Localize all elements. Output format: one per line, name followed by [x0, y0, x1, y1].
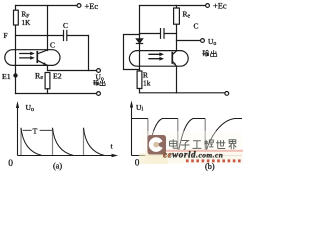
wire: circuit (b) bottom rail: [140, 92, 225, 94]
graph (a) decay curves: [21, 128, 105, 156]
label 输出 (b): [202, 50, 216, 56]
wire: node F horizontal to capacitor: [16, 35, 64, 37]
watermark title 电子工程世界: [170, 139, 237, 149]
resistor R (b): [137, 71, 142, 89]
wire: diode branch vertical (b): [139, 6, 141, 39]
capacitor C (b): [140, 29, 177, 39]
svg-text:F: F: [4, 31, 8, 40]
svg-text:+Ec: +Ec: [85, 2, 99, 11]
graph (b) waveform drops: [148, 119, 205, 152]
svg-text:(a): (a): [53, 162, 62, 171]
svg-text:0: 0: [8, 159, 13, 169]
terminal output common (b): [225, 92, 229, 96]
resistor Re (b): [174, 8, 180, 24]
resistor Re (a): [45, 73, 50, 89]
svg-text:E1: E1: [2, 72, 11, 81]
graph (b) Y axis arrow: [130, 101, 133, 108]
svg-text:C: C: [63, 21, 68, 30]
wire: circuit (a) left vertical (RF branch / LED): [15, 6, 17, 94]
resistor RF: [14, 10, 19, 25]
svg-text:E2: E2: [53, 72, 62, 81]
emitter arrow (b): [173, 62, 176, 65]
svg-text:+Ec: +Ec: [213, 2, 227, 11]
wire: collector vertical (a): [47, 6, 49, 51]
T dimension line: [23, 129, 52, 131]
svg-text:T: T: [33, 126, 38, 135]
terminal +Ec (a): [77, 4, 81, 8]
wire: emitter down to bottom rail (b): [176, 66, 178, 93]
wire: R bottom stub (b): [139, 89, 141, 93]
graph (b) waveform tops and rise curves: [132, 119, 243, 152]
svg-text:C: C: [194, 22, 199, 31]
svg-text:1k: 1k: [143, 79, 151, 88]
watermark lower band: [145, 150, 243, 164]
graph (b): [130, 101, 242, 156]
watermark pink underline band: [163, 150, 243, 152]
terminal Uo upper (a): [97, 69, 101, 73]
terminal Uo lower (a): [97, 92, 101, 96]
graph (a) Y axis arrow: [16, 101, 19, 108]
phototransistor (b): [171, 53, 173, 63]
svg-text:eeworld.com.cn: eeworld.com.cn: [163, 150, 223, 160]
watermark logo: [148, 135, 167, 155]
emitter arrow (a): [43, 62, 47, 65]
LED light arrows (a): [20, 54, 31, 58]
wire: output line (a): [48, 70, 97, 72]
label 输出 (a): [93, 80, 105, 86]
wire: circuit (a) bottom rail: [16, 93, 97, 95]
graph (b) X axis: [132, 155, 243, 157]
svg-text:1K: 1K: [22, 19, 32, 27]
wire: protection loop (b): [124, 35, 140, 70]
watermark tint panel: [142, 131, 243, 151]
graph (a) pulse risers: [21, 128, 84, 155]
LED light arrows (b): [149, 54, 160, 58]
phototransistor (a): [36, 52, 38, 62]
wire: circuit (b) top +Ec rail: [140, 5, 206, 7]
wire: Re bottom stub (a): [47, 89, 49, 94]
wire: Re branch vertical (b): [176, 6, 178, 51]
wire: circuit (a) top +Ec rail: [16, 5, 78, 7]
wire: emitter to output line (a): [47, 65, 49, 70]
watermark slogan marks: [186, 159, 241, 162]
terminal +Ec (b): [206, 4, 210, 8]
diode D (b): [136, 39, 142, 43]
wire: Uo tap (b): [177, 40, 201, 42]
optocoupler U2 (b) body: [129, 51, 188, 67]
wire: LED vertical through optocoupler (b): [139, 44, 141, 72]
terminal Uo (b): [201, 39, 205, 43]
graph (a) X axis arrow: [112, 154, 119, 158]
capacitor C (a): [64, 31, 89, 41]
svg-text:(b): (b): [205, 162, 215, 171]
optocoupler U1 (a) body: [5, 50, 60, 66]
node E1 dot: [13, 73, 17, 77]
wire: capacitor down to output node (a): [88, 36, 90, 71]
graph (b) Y axis: [131, 104, 133, 156]
graph (a) Y axis: [17, 104, 19, 156]
graph (a) X axis: [18, 155, 116, 157]
graph (a): [16, 101, 118, 157]
svg-text:C: C: [50, 41, 55, 50]
watermark cream patch under logo: [139, 153, 168, 164]
